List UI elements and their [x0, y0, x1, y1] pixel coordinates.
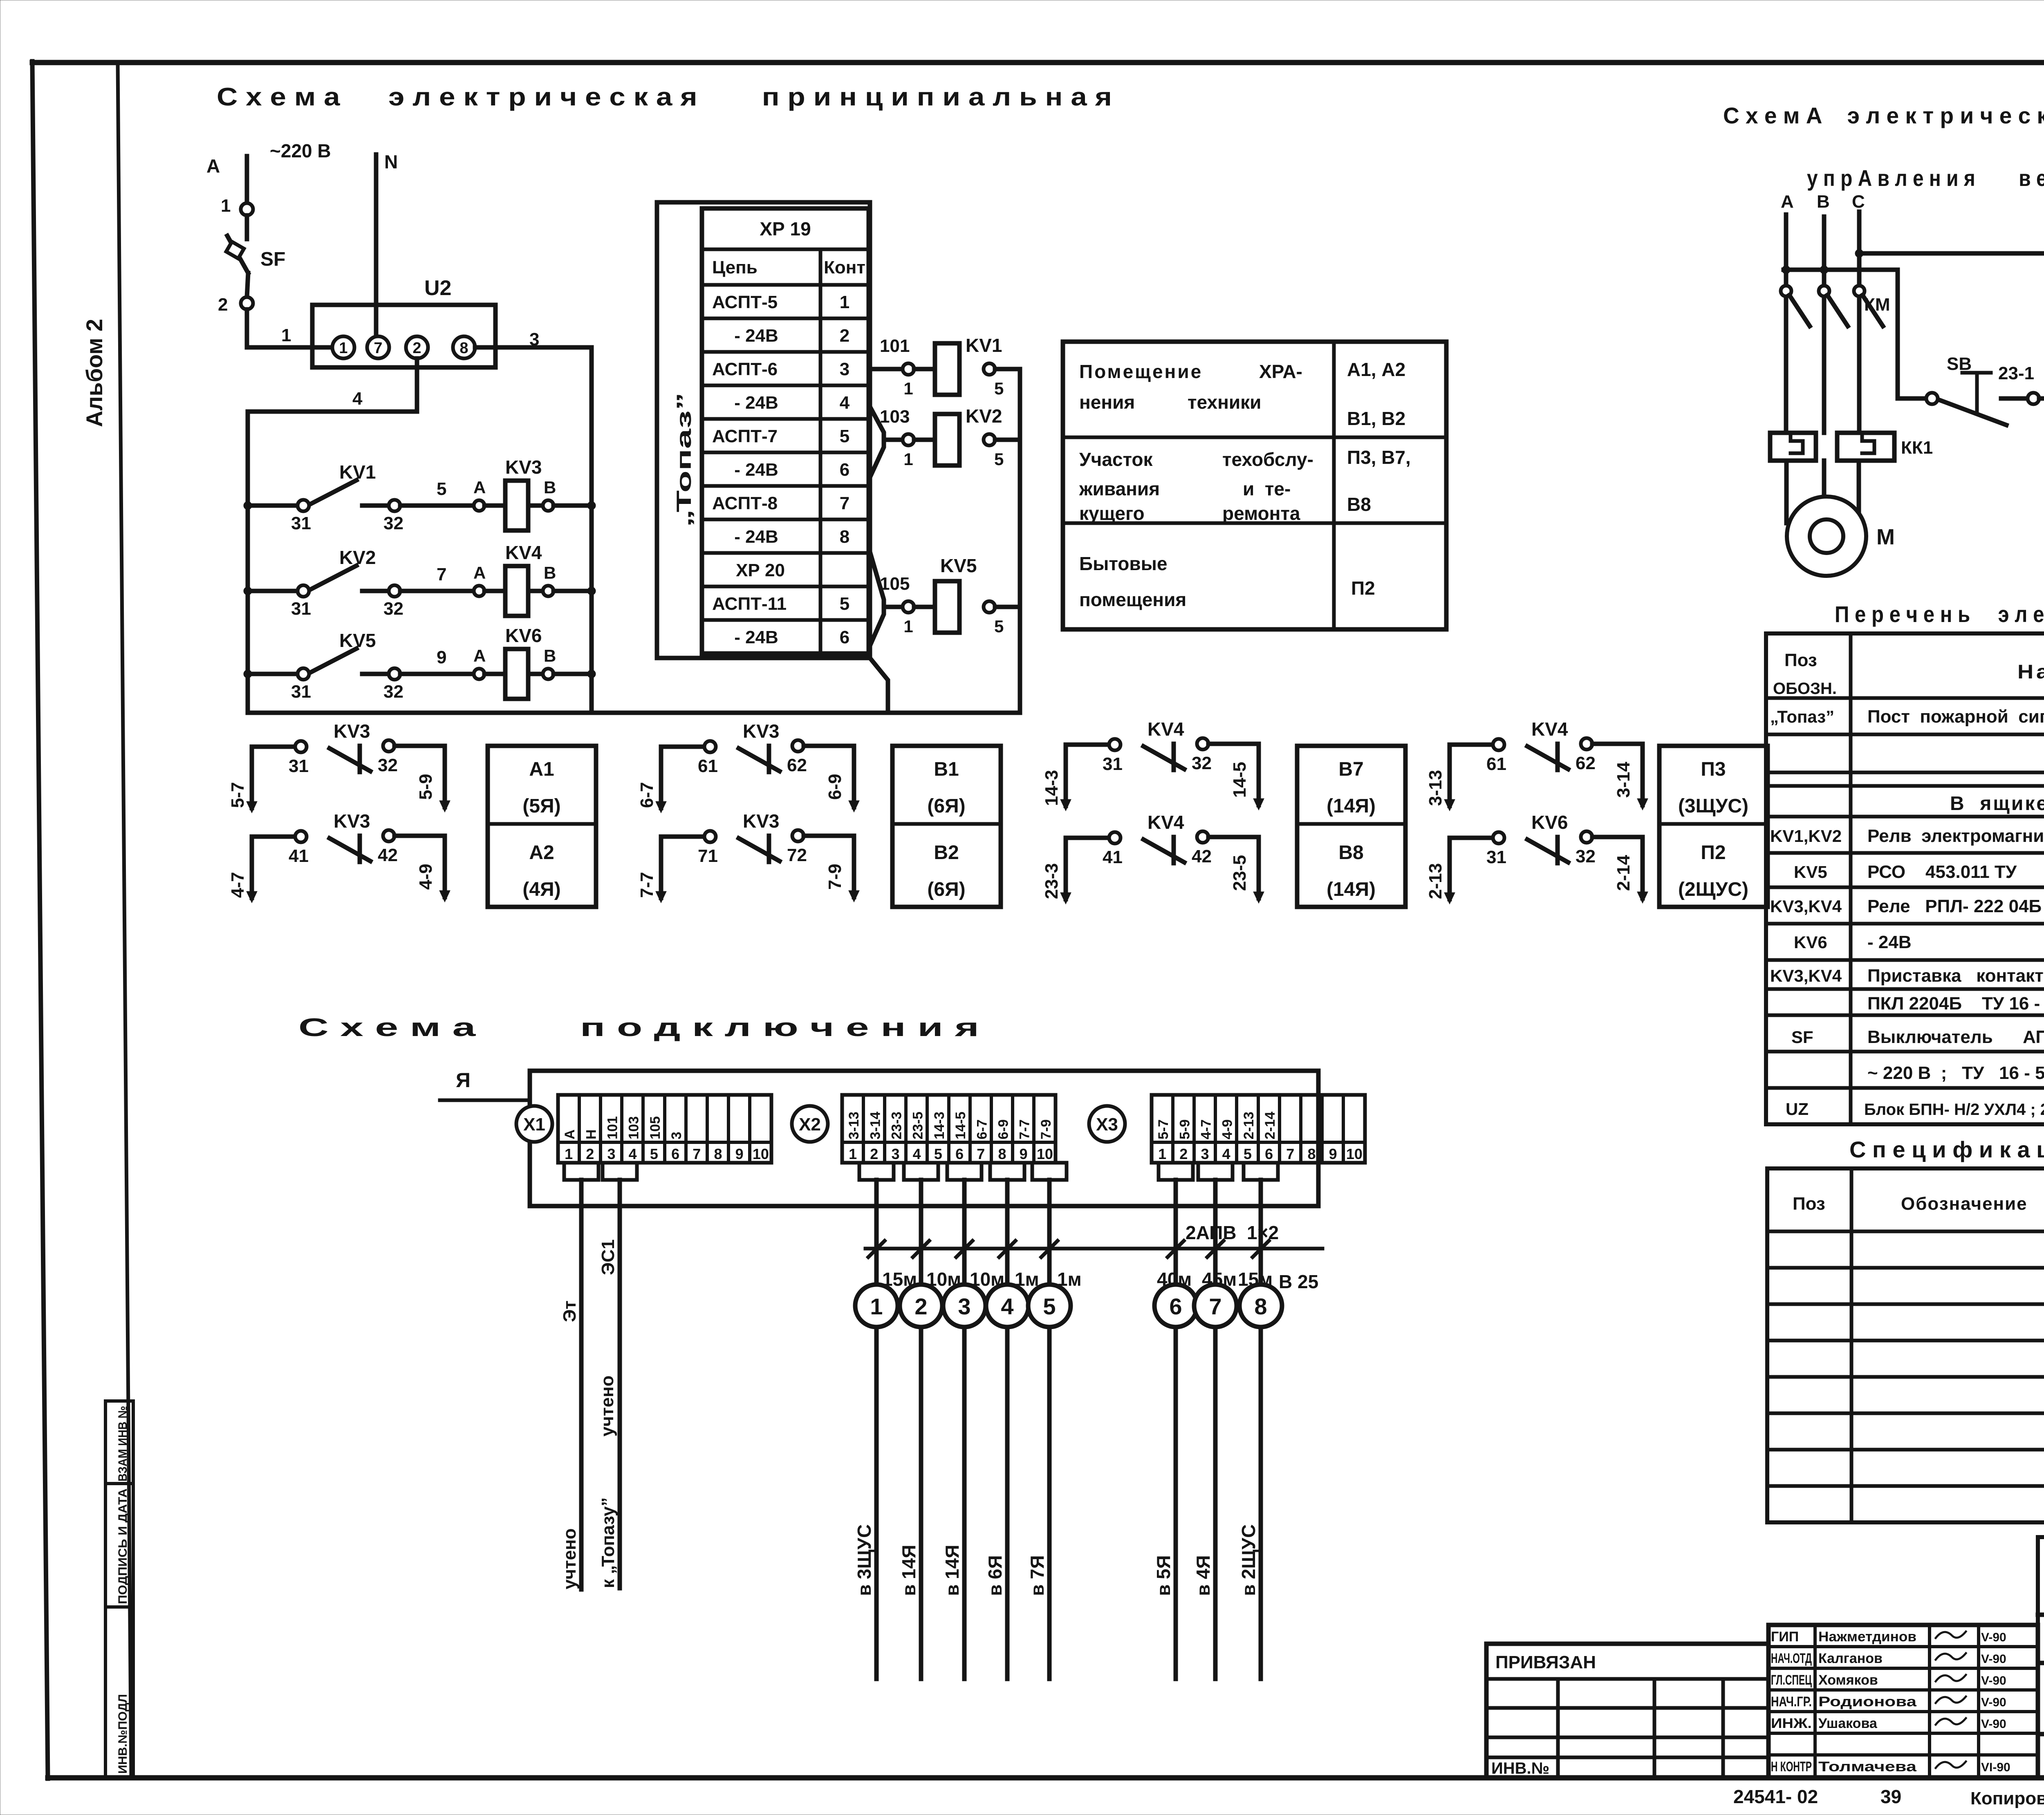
svg-text:8: 8 — [1254, 1294, 1267, 1319]
connector Х3 circle — [1089, 1106, 1125, 1142]
svg-text:(2ЩУС): (2ЩУС) — [1678, 879, 1748, 900]
svg-text:в 4Я: в 4Я — [1192, 1555, 1214, 1596]
svg-text:ХР 20: ХР 20 — [736, 560, 785, 580]
svg-text:1: 1 — [903, 450, 913, 469]
svg-text:9: 9 — [1329, 1146, 1337, 1162]
svg-text:Х1: Х1 — [523, 1115, 545, 1135]
svg-text:Альбом 2: Альбом 2 — [81, 319, 107, 427]
svg-text:31: 31 — [291, 513, 311, 533]
svg-text:KV5: KV5 — [1794, 862, 1827, 882]
svg-text:KV6: KV6 — [1531, 812, 1568, 833]
svg-text:6: 6 — [840, 460, 849, 480]
svg-text:4: 4 — [629, 1146, 637, 1162]
svg-text:6: 6 — [671, 1146, 679, 1162]
privyazan box — [1486, 1644, 1768, 1778]
aux contact KV4 41-42 — [1066, 838, 1109, 899]
svg-text:А: А — [473, 478, 486, 497]
svg-text:5: 5 — [934, 1146, 942, 1162]
reference box В7/В8 — [1297, 746, 1405, 907]
phase bus — [1784, 270, 1898, 398]
svg-text:4: 4 — [1001, 1294, 1013, 1319]
svg-text:3: 3 — [891, 1146, 899, 1162]
svg-text:5-9: 5-9 — [1177, 1119, 1192, 1139]
svg-text:- 24В: - 24В — [734, 627, 778, 647]
svg-text:Приставка контактная: Приставка контактная — [1867, 966, 2044, 986]
svg-text:6-7: 6-7 — [974, 1119, 990, 1139]
svg-text:10: 10 — [1037, 1146, 1053, 1162]
svg-text:14-5: 14-5 — [953, 1112, 968, 1139]
wire 3 from U2 to right rail — [475, 347, 592, 713]
svg-text:АСПТ-6: АСПТ-6 — [712, 359, 778, 379]
svg-text:НАЧ.ГР.: НАЧ.ГР. — [1771, 1694, 1812, 1710]
svg-text:KV3: KV3 — [334, 721, 370, 742]
connector Х1 circle — [516, 1106, 552, 1142]
svg-text:SF: SF — [260, 248, 285, 270]
svg-text:41: 41 — [1103, 847, 1123, 867]
svg-text:Обозначение: Обозначение — [1901, 1194, 2028, 1214]
svg-text:9: 9 — [1020, 1146, 1028, 1162]
svg-text:KV3: KV3 — [334, 810, 370, 832]
contact A of coil KV3 — [474, 500, 484, 511]
svg-text:С х е м а п о д к л ю: С х е м а п о д к л ю ч е н и я — [298, 1014, 979, 1042]
svg-text:Хомяков: Хомяков — [1818, 1672, 1878, 1688]
svg-text:1: 1 — [903, 379, 913, 398]
svg-text:ВЗАМ ИНВ №: ВЗАМ ИНВ № — [116, 1406, 130, 1482]
wire ES1 from X1 — [618, 1180, 622, 1588]
svg-text:103: 103 — [880, 407, 910, 427]
svg-text:1: 1 — [903, 617, 913, 636]
svg-text:6: 6 — [840, 627, 849, 647]
svg-text:А: А — [1781, 192, 1794, 212]
cable number circles 1-8 — [855, 1285, 898, 1327]
svg-text:живания: живания — [1079, 478, 1160, 499]
svg-text:V-90: V-90 — [1981, 1652, 2006, 1666]
svg-text:ХР 19: ХР 19 — [760, 218, 811, 239]
svg-text:KV3,KV4: KV3,KV4 — [1770, 966, 1842, 985]
svg-text:6-7: 6-7 — [637, 782, 657, 808]
svg-text:А: А — [206, 155, 220, 177]
svg-text:KV1,KV2: KV1,KV2 — [1770, 826, 1842, 846]
svg-text:Поз: Поз — [1784, 650, 1817, 670]
svg-text:2: 2 — [412, 340, 421, 357]
svg-text:Реле РПЛ- 222 04Б ТУ 16: Реле РПЛ- 222 04Б ТУ 16 - 523- 554- 82 — [1867, 896, 2044, 916]
inner frame left line — [118, 63, 131, 1778]
svg-text:6: 6 — [1169, 1294, 1182, 1319]
svg-text:4-7: 4-7 — [1199, 1119, 1214, 1139]
svg-text:UZ: UZ — [1786, 1099, 1809, 1119]
svg-text:Х2: Х2 — [799, 1115, 821, 1135]
svg-text:В 25: В 25 — [1279, 1271, 1318, 1292]
relay coil KV4 — [505, 566, 528, 616]
svg-text:5-7: 5-7 — [1156, 1119, 1171, 1139]
svg-text:П2: П2 — [1351, 577, 1375, 599]
svg-text:А2: А2 — [529, 842, 554, 864]
svg-text:Поз: Поз — [1793, 1194, 1825, 1214]
svg-text:Бытовые: Бытовые — [1079, 553, 1168, 574]
svg-text:4: 4 — [840, 393, 850, 413]
svg-text:С х е м а э л е к т р и ч: С х е м а э л е к т р и ч е с к а я п р … — [217, 83, 1112, 111]
svg-text:Н: Н — [583, 1129, 599, 1139]
svg-text:7: 7 — [840, 493, 849, 513]
svg-text:6-9: 6-9 — [825, 774, 845, 800]
relay contact KV1 — [244, 501, 252, 510]
svg-text:учтено: учтено — [597, 1376, 617, 1437]
svg-text:KV2: KV2 — [966, 405, 1002, 427]
svg-text:105: 105 — [648, 1116, 663, 1139]
svg-text:3: 3 — [840, 359, 849, 379]
wire SF to node 1 — [247, 309, 336, 347]
relay coil branch KV5 — [870, 552, 884, 646]
svg-text:KV6: KV6 — [505, 625, 542, 646]
aux contact KV3 31-32 — [252, 747, 295, 808]
svg-text:6: 6 — [955, 1146, 964, 1162]
contact A of coil KV6 — [474, 669, 484, 679]
svg-text:1: 1 — [339, 340, 347, 357]
svg-text:62: 62 — [787, 755, 807, 775]
svg-text:П е р е ч е н ь э л е м е: П е р е ч е н ь э л е м е н т о в — [1835, 601, 2044, 627]
aux contact KV6 31-32 — [1450, 838, 1493, 899]
aux contact KV3 41-42 — [252, 837, 295, 898]
svg-text:ГЛ.СПЕЦ: ГЛ.СПЕЦ — [1771, 1672, 1812, 1688]
circuit breaker SF blade — [227, 236, 248, 273]
svg-text:Калганов: Калганов — [1818, 1651, 1883, 1666]
aux contact KV3 71-72 — [661, 837, 704, 898]
svg-text:ПРИВЯЗАН: ПРИВЯЗАН — [1495, 1652, 1596, 1672]
svg-text:в 14Я: в 14Я — [898, 1545, 919, 1596]
svg-text:14-5: 14-5 — [1230, 762, 1250, 798]
signature squiggle — [1936, 1653, 1966, 1660]
svg-text:(4Я): (4Я) — [522, 879, 560, 900]
svg-text:V-90: V-90 — [1981, 1717, 2006, 1731]
svg-text:в 3ЩУС: в 3ЩУС — [854, 1524, 875, 1596]
svg-text:(5Я): (5Я) — [522, 795, 560, 817]
svg-text:4: 4 — [1222, 1146, 1230, 1162]
svg-text:3-14: 3-14 — [867, 1112, 883, 1139]
svg-text:КМ: КМ — [1864, 295, 1890, 315]
svg-text:7-7: 7-7 — [1017, 1119, 1033, 1139]
svg-text:23-1: 23-1 — [1998, 363, 2034, 383]
wire to 23-1 — [2001, 396, 2028, 401]
svg-text:5: 5 — [1244, 1146, 1252, 1162]
svg-text:Родионова: Родионова — [1818, 1694, 1917, 1710]
svg-text:АСПТ-5: АСПТ-5 — [712, 292, 778, 312]
signature table — [1768, 1625, 2038, 1778]
svg-text:39: 39 — [1880, 1786, 1901, 1807]
svg-text:ПКЛ 2204Б ТУ 16 - 523 - 554: ПКЛ 2204Б ТУ 16 - 523 - 554 - 82 — [1867, 994, 2044, 1014]
svg-text:1: 1 — [565, 1146, 573, 1162]
svg-text:С х е м А э л е к т р и ч е: С х е м А э л е к т р и ч е с к А я п р … — [1723, 103, 2044, 128]
svg-text:1: 1 — [840, 292, 849, 312]
elements list table — [1766, 633, 2044, 1124]
svg-text:31: 31 — [1486, 847, 1506, 867]
svg-text:А: А — [473, 563, 486, 582]
svg-text:в 5Я: в 5Я — [1153, 1555, 1174, 1596]
signature squiggle — [1936, 1675, 1966, 1681]
svg-text:2АПВ 1×2: 2АПВ 1×2 — [1186, 1222, 1279, 1243]
svg-text:А1: А1 — [529, 759, 554, 780]
svg-text:5: 5 — [994, 450, 1004, 469]
svg-text:8: 8 — [714, 1146, 722, 1162]
svg-text:U2: U2 — [424, 276, 451, 300]
svg-text:VI-90: VI-90 — [1981, 1761, 2010, 1774]
svg-text:3-14: 3-14 — [1614, 761, 1634, 798]
svg-text:7: 7 — [977, 1146, 985, 1162]
svg-text:помещения: помещения — [1079, 589, 1186, 610]
svg-text:ремонта: ремонта — [1222, 503, 1300, 524]
svg-text:- 24В: - 24В — [734, 326, 778, 346]
wire phase A vertical — [245, 156, 249, 203]
svg-text:1: 1 — [870, 1294, 883, 1319]
svg-text:В: В — [544, 563, 556, 582]
svg-text:П3: П3 — [1701, 759, 1726, 780]
svg-text:7: 7 — [374, 340, 382, 357]
svg-text:В2: В2 — [934, 842, 959, 864]
relay contact KV5 — [244, 670, 252, 678]
svg-text:Блок БПН- Н/2 УХЛ4 ; 220/24: Блок БПН- Н/2 УХЛ4 ; 220/24 ТУ 16-529,21… — [1864, 1101, 2044, 1119]
svg-text:(14Я): (14Я) — [1327, 879, 1376, 900]
svg-text:9: 9 — [437, 647, 446, 667]
cabinet box Ya — [530, 1071, 1318, 1206]
svg-text:4-7: 4-7 — [228, 872, 248, 898]
svg-text:1: 1 — [281, 325, 291, 345]
svg-text:7: 7 — [437, 564, 446, 584]
svg-text:- 24В: - 24В — [734, 393, 778, 413]
svg-text:АСПТ-11: АСПТ-11 — [712, 594, 787, 614]
svg-text:42: 42 — [1192, 846, 1212, 866]
svg-text:8: 8 — [998, 1146, 1006, 1162]
contactor KM main contacts — [1781, 286, 1791, 296]
svg-text:8: 8 — [840, 527, 849, 547]
svg-text:32: 32 — [383, 599, 403, 619]
svg-text:V-90: V-90 — [1981, 1696, 2006, 1709]
svg-text:5: 5 — [1043, 1294, 1056, 1319]
svg-text:кущего: кущего — [1079, 503, 1145, 524]
svg-text:НАЧ.ОТД: НАЧ.ОТД — [1771, 1651, 1812, 1666]
svg-text:В8: В8 — [1338, 842, 1363, 864]
signature squiggle — [1936, 1718, 1966, 1725]
svg-text:КК1: КК1 — [1901, 438, 1933, 458]
signature squiggle — [1936, 1631, 1966, 1638]
svg-text:П2: П2 — [1701, 842, 1726, 864]
svg-text:техобслу-: техобслу- — [1222, 449, 1313, 470]
reference box А1/А2 — [488, 746, 596, 907]
svg-text:N: N — [384, 151, 398, 172]
svg-text:71: 71 — [698, 846, 718, 866]
control ladder wire — [1898, 396, 1926, 401]
svg-text:32: 32 — [1192, 753, 1212, 773]
svg-text:Н КОНТР: Н КОНТР — [1771, 1759, 1812, 1775]
svg-text:5: 5 — [437, 479, 446, 499]
relay coil KV6 — [505, 649, 528, 699]
wire between SF contacts — [245, 215, 249, 239]
svg-text:П3, В7,: П3, В7, — [1347, 447, 1411, 468]
svg-text:5: 5 — [650, 1146, 658, 1162]
svg-text:(6Я): (6Я) — [927, 795, 965, 817]
svg-text:32: 32 — [383, 682, 403, 702]
svg-text:ОБОЗН.: ОБОЗН. — [1773, 680, 1837, 698]
svg-text:РСО 453.011 ТУ - 24 В: РСО 453.011 ТУ - 24 В — [1867, 862, 2044, 882]
svg-text:101: 101 — [605, 1116, 621, 1139]
svg-text:2: 2 — [870, 1146, 878, 1162]
relay contact KV2 — [244, 587, 252, 595]
svg-text:10: 10 — [753, 1146, 769, 1162]
terminal 7 of U2 — [367, 336, 389, 358]
svg-text:5: 5 — [994, 617, 1004, 636]
svg-text:10: 10 — [1346, 1146, 1363, 1162]
svg-text:KV6: KV6 — [1794, 933, 1827, 952]
svg-text:31: 31 — [289, 756, 309, 776]
svg-text:(14Я): (14Я) — [1327, 795, 1376, 817]
svg-text:Копировал Нестеянова, Яил: Копировал Нестеянова, Яил — [1970, 1788, 2044, 1808]
svg-text:KV5: KV5 — [940, 555, 977, 576]
svg-text:~220 В: ~220 В — [270, 140, 331, 161]
svg-text:3: 3 — [529, 329, 539, 349]
svg-text:23-5: 23-5 — [1230, 855, 1250, 891]
svg-text:в 7Я: в 7Я — [1026, 1555, 1048, 1596]
svg-text:3-13: 3-13 — [846, 1112, 862, 1139]
contact A of coil KV4 — [474, 586, 484, 596]
svg-text:2-14: 2-14 — [1614, 855, 1634, 891]
terminal 1 of U2 — [332, 336, 354, 358]
terminal 8 of U2 — [453, 336, 475, 358]
svg-text:101: 101 — [880, 336, 910, 356]
svg-text:А: А — [473, 646, 486, 665]
svg-text:Помещение: Помещение — [1079, 361, 1203, 382]
svg-text:- 24В: - 24В — [734, 527, 778, 547]
svg-text:9: 9 — [735, 1146, 744, 1162]
connector Х3 terminal strip — [1152, 1095, 1365, 1163]
svg-text:„Топаз”: „Топаз” — [1770, 707, 1834, 726]
svg-text:61: 61 — [698, 756, 718, 776]
svg-text:3: 3 — [958, 1294, 970, 1319]
signature squiggle — [1936, 1761, 1966, 1768]
svg-text:3-13: 3-13 — [1425, 770, 1446, 806]
svg-text:24541- 02: 24541- 02 — [1733, 1786, 1818, 1807]
cable marker line 2APV 1x2 — [865, 1247, 1322, 1251]
svg-text:4-9: 4-9 — [1220, 1119, 1235, 1139]
svg-text:KV3,KV4: KV3,KV4 — [1770, 897, 1842, 916]
svg-text:Я: Я — [456, 1069, 471, 1092]
svg-text:6-9: 6-9 — [996, 1119, 1011, 1139]
svg-text:32: 32 — [378, 755, 398, 775]
connector Х2 terminal strip — [842, 1095, 1056, 1163]
svg-text:„Топаз”: „Топаз” — [672, 392, 695, 527]
contact B of coil KV6 — [543, 669, 554, 679]
svg-text:Х3: Х3 — [1096, 1115, 1118, 1135]
svg-text:61: 61 — [1486, 754, 1506, 774]
svg-text:KV4: KV4 — [505, 542, 542, 563]
svg-text:31: 31 — [291, 599, 311, 619]
connector Х1 terminal strip — [558, 1095, 771, 1163]
cable group lines X2 X3 — [874, 1180, 879, 1679]
svg-text:KV4: KV4 — [1148, 812, 1184, 833]
svg-text:А1, А2: А1, А2 — [1347, 359, 1405, 380]
svg-text:3: 3 — [669, 1132, 684, 1139]
svg-text:SF: SF — [1791, 1027, 1813, 1047]
svg-text:42: 42 — [378, 845, 398, 865]
connector table XP19 — [702, 208, 869, 653]
svg-text:ПОДПИСЬ И ДАТА: ПОДПИСЬ И ДАТА — [116, 1488, 130, 1604]
svg-text:(3ЩУС): (3ЩУС) — [1678, 795, 1748, 817]
svg-text:Наименование: Наименование — [2017, 661, 2044, 683]
svg-text:Толмачева: Толмачева — [1818, 1759, 1917, 1775]
svg-text:Эт: Эт — [560, 1300, 580, 1322]
svg-text:1: 1 — [221, 196, 231, 216]
svg-text:3: 3 — [607, 1146, 615, 1162]
svg-text:3: 3 — [1201, 1146, 1209, 1162]
svg-text:14-3: 14-3 — [932, 1112, 947, 1139]
svg-text:~ 220 В ; ТУ 16 - 522 ,: ~ 220 В ; ТУ 16 - 522 , 139 - 87 — [1867, 1063, 2044, 1083]
svg-text:4: 4 — [352, 389, 363, 409]
specification table — [1767, 1168, 2044, 1522]
aux contact KV4 31-32 — [1066, 745, 1109, 806]
terminal 2 of U2 — [406, 336, 428, 358]
contact 2 of SF — [241, 297, 253, 309]
right rail of coil branches — [1018, 369, 1022, 713]
aux contact KV3 61-62 — [661, 747, 704, 808]
svg-text:32: 32 — [383, 513, 403, 533]
aux contact KV4 61-62 — [1450, 745, 1493, 806]
stop button SB contact — [1926, 393, 1938, 404]
svg-text:АСПТ-8: АСПТ-8 — [712, 493, 778, 513]
wire Et from X1 — [579, 1180, 584, 1589]
wire Topaz box to return rail — [870, 658, 888, 713]
power supply block U2 — [312, 305, 495, 367]
svg-text:14-3: 14-3 — [1042, 770, 1062, 806]
svg-text:KV5: KV5 — [339, 630, 376, 651]
relay coil branch KV2 — [870, 407, 884, 477]
svg-text:2: 2 — [914, 1294, 927, 1319]
svg-text:ГИП: ГИП — [1771, 1629, 1799, 1645]
control supply top wire — [1859, 251, 2044, 256]
svg-text:Ушакова: Ушакова — [1818, 1716, 1878, 1731]
svg-text:4-9: 4-9 — [416, 864, 436, 890]
svg-text:103: 103 — [626, 1116, 642, 1139]
svg-text:Цепь: Цепь — [712, 257, 758, 278]
svg-text:- 24В: - 24В — [1867, 932, 1912, 952]
svg-text:KV3: KV3 — [743, 810, 779, 832]
svg-text:ХРА-: ХРА- — [1259, 361, 1302, 382]
svg-text:ИНЖ.: ИНЖ. — [1771, 1716, 1812, 1731]
contact B of coil KV3 — [543, 500, 554, 511]
svg-text:23-3: 23-3 — [1042, 863, 1062, 899]
svg-text:к „Топазу”: к „Топазу” — [598, 1497, 618, 1588]
thermal relay KK1 heaters — [1770, 433, 1816, 461]
svg-text:105: 105 — [880, 574, 910, 594]
svg-text:ИНВ.№ПОДЛ: ИНВ.№ПОДЛ — [116, 1694, 130, 1774]
svg-text:23-5: 23-5 — [910, 1112, 926, 1139]
svg-text:ИНВ.№: ИНВ.№ — [1491, 1759, 1549, 1777]
svg-text:KV3: KV3 — [505, 457, 542, 478]
svg-text:5: 5 — [840, 594, 849, 614]
svg-text:2: 2 — [1179, 1146, 1188, 1162]
svg-text:KV4: KV4 — [1531, 718, 1568, 740]
svg-text:- 24В: - 24В — [734, 460, 778, 480]
svg-text:нения: нения — [1079, 392, 1135, 413]
svg-text:41: 41 — [289, 846, 309, 866]
svg-text:Участок: Участок — [1079, 449, 1153, 470]
svg-text:32: 32 — [1576, 846, 1596, 866]
wire 4 from U2 to left rail — [248, 358, 417, 713]
svg-text:у п р А в л е н и я в е: у п р А в л е н и я в е н т и л я т о р … — [1807, 165, 2044, 191]
svg-text:8: 8 — [459, 340, 468, 357]
svg-text:7: 7 — [1209, 1294, 1221, 1319]
motor leads — [1784, 461, 1789, 523]
left margin stamp strip — [105, 1401, 133, 1778]
svg-text:KV1: KV1 — [966, 335, 1002, 356]
title block main frame — [2038, 1537, 2044, 1778]
svg-text:KV4: KV4 — [1148, 718, 1184, 740]
